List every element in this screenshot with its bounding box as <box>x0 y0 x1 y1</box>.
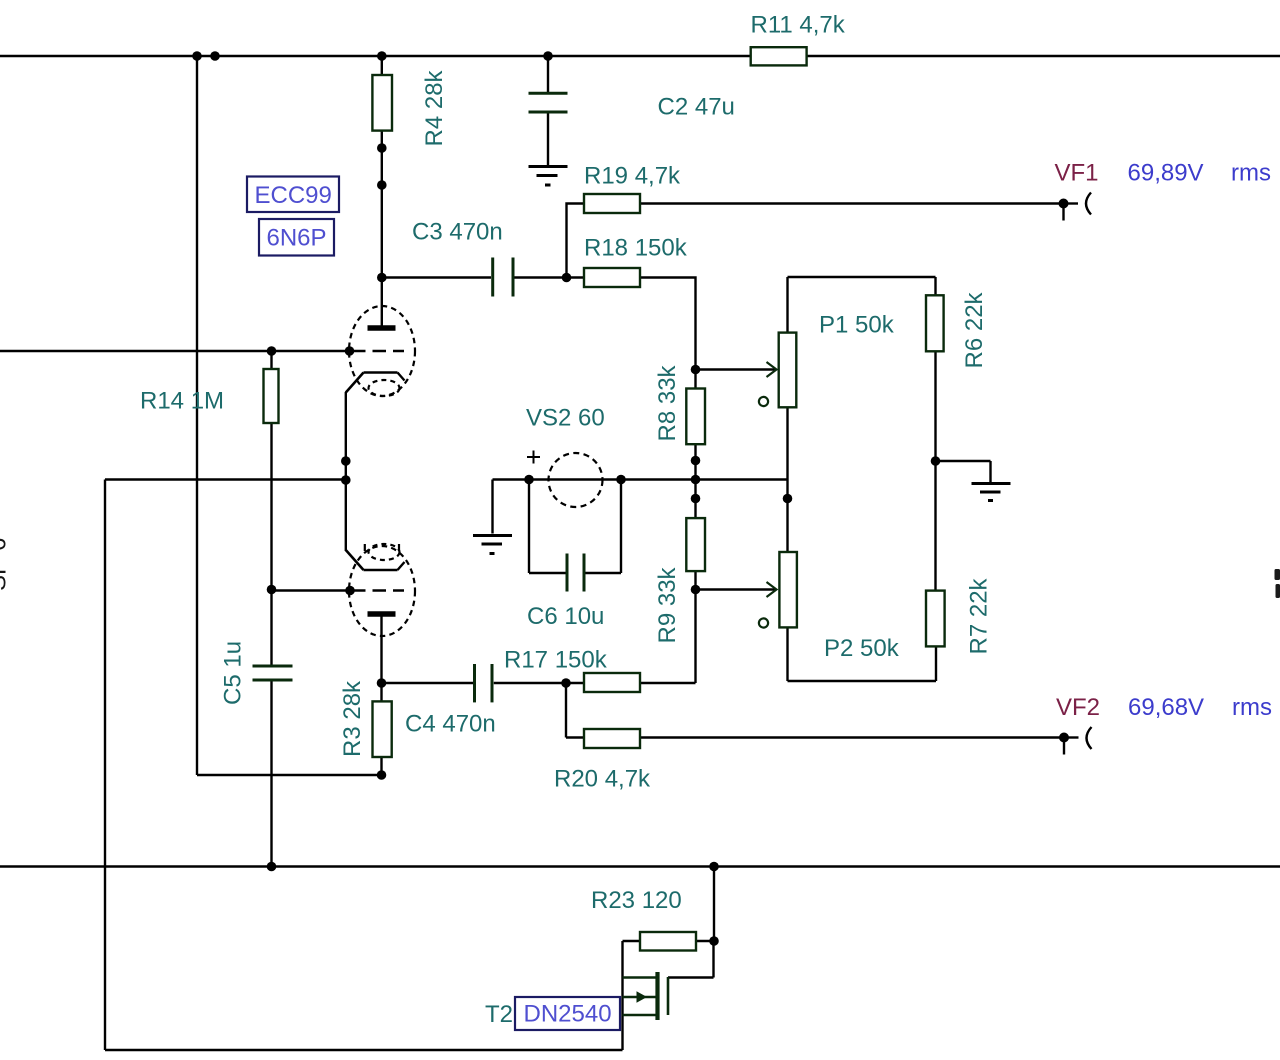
svg-text:P1 50k: P1 50k <box>819 312 895 339</box>
svg-text:C2 47u: C2 47u <box>658 94 735 121</box>
svg-text:C3 470n: C3 470n <box>412 219 503 246</box>
svg-text:T2: T2 <box>485 1001 513 1028</box>
svg-text:69,68V: 69,68V <box>1128 694 1204 721</box>
svg-text:R14 1M: R14 1M <box>140 388 224 415</box>
svg-text:R17 150k: R17 150k <box>504 647 608 674</box>
svg-text:ECC99: ECC99 <box>255 182 332 209</box>
svg-text:rms: rms <box>1232 694 1272 721</box>
svg-text:69,89V: 69,89V <box>1128 160 1204 187</box>
svg-text:R8 33k: R8 33k <box>654 364 681 441</box>
svg-text:P2 50k: P2 50k <box>824 635 900 662</box>
svg-text:C6 10u: C6 10u <box>527 603 604 630</box>
svg-text:DN2540: DN2540 <box>524 1001 612 1028</box>
svg-text:C4 470n: C4 470n <box>405 711 496 738</box>
svg-text:C5 1u: C5 1u <box>220 641 247 705</box>
svg-text:R7 22k: R7 22k <box>966 577 993 654</box>
svg-text:R11 4,7k: R11 4,7k <box>751 12 846 39</box>
svg-text:R20 4,7k: R20 4,7k <box>554 766 651 793</box>
svg-text:SP-6: SP-6 <box>0 538 12 591</box>
svg-text:6N6P: 6N6P <box>267 225 327 252</box>
svg-text:R18 150k: R18 150k <box>584 235 688 262</box>
svg-text:VS2 60: VS2 60 <box>526 405 605 432</box>
svg-text:R6 22k: R6 22k <box>961 291 988 368</box>
svg-text:R4 28k: R4 28k <box>421 69 448 146</box>
svg-text:R19 4,7k: R19 4,7k <box>584 163 681 190</box>
svg-text:VF1: VF1 <box>1055 160 1099 187</box>
svg-text:rms: rms <box>1231 160 1271 187</box>
svg-text:R23 120: R23 120 <box>591 887 682 914</box>
svg-text:R3 28k: R3 28k <box>339 680 366 757</box>
svg-text:VF2: VF2 <box>1056 694 1100 721</box>
svg-text:R9 33k: R9 33k <box>654 566 681 643</box>
